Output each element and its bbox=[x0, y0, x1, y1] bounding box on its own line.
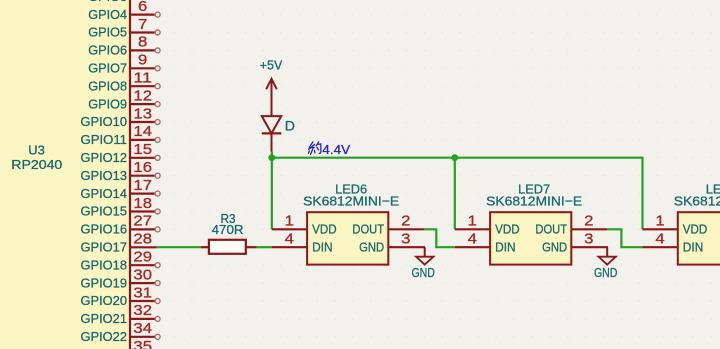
svg-text:34: 34 bbox=[133, 321, 152, 337]
IC U3 RP2040 body bbox=[0, 0, 130, 349]
LED LED8 body bbox=[678, 212, 720, 264]
svg-text:DIN: DIN bbox=[495, 239, 515, 254]
LED6 pin 4 DIN bbox=[272, 232, 333, 255]
svg-text:GPIO4: GPIO4 bbox=[88, 7, 127, 22]
wire drop to LED6 VDD bbox=[271, 158, 273, 230]
U3 pin 29 GPIO18 bbox=[81, 250, 161, 273]
LED6 pin 2 DOUT bbox=[352, 214, 424, 237]
svg-text:1: 1 bbox=[655, 214, 664, 230]
U3 pin 7 GPIO5 bbox=[88, 17, 160, 40]
svg-text:30: 30 bbox=[133, 267, 152, 283]
LED7 pin 2 DOUT bbox=[535, 214, 607, 237]
svg-text:31: 31 bbox=[133, 285, 152, 301]
svg-text:15: 15 bbox=[133, 142, 152, 158]
U3 pin 27 GPIO16 bbox=[81, 214, 161, 237]
svg-text:470R: 470R bbox=[212, 222, 244, 237]
wire GPIO17 to R3 bbox=[157, 246, 201, 248]
svg-text:SK6812MINI−E: SK6812MINI−E bbox=[674, 193, 720, 208]
LED7 pin 4 DIN bbox=[455, 232, 516, 255]
U3 pin 14 GPIO11 bbox=[81, 124, 161, 147]
U3 pin 28 GPIO17 bbox=[81, 232, 157, 255]
ground symbol GND (LED6) bbox=[411, 247, 435, 280]
svg-text:U3: U3 bbox=[28, 142, 45, 157]
svg-text:4.4V: 4.4V bbox=[322, 142, 350, 157]
svg-text:1: 1 bbox=[468, 214, 477, 230]
svg-text:GPIO11: GPIO11 bbox=[81, 132, 128, 147]
wire +5V bus bbox=[272, 152, 643, 230]
svg-text:GPIO9: GPIO9 bbox=[88, 96, 127, 111]
svg-text:1: 1 bbox=[285, 214, 294, 230]
svg-text:GND: GND bbox=[359, 239, 384, 254]
svg-text:GPIO10: GPIO10 bbox=[81, 114, 128, 129]
svg-text:SK6812MINI−E: SK6812MINI−E bbox=[303, 193, 399, 208]
U3 pin 15 GPIO12 bbox=[81, 142, 161, 165]
wire LED7 DOUT to LED8 DIN bbox=[607, 229, 642, 247]
LED8 pin 4 DIN bbox=[643, 232, 704, 255]
svg-text:GND: GND bbox=[542, 239, 567, 254]
net label "約4.4V" bbox=[309, 142, 321, 155]
svg-text:GPIO17: GPIO17 bbox=[81, 240, 128, 255]
svg-text:GPIO15: GPIO15 bbox=[81, 204, 128, 219]
svg-text:4: 4 bbox=[285, 232, 294, 248]
svg-text:GPIO19: GPIO19 bbox=[81, 275, 128, 290]
LED7 pin 1 VDD bbox=[455, 214, 520, 237]
svg-text:GPIO14: GPIO14 bbox=[81, 186, 128, 201]
U3 pin 32 GPIO21 bbox=[81, 303, 161, 326]
svg-text:RP2040: RP2040 bbox=[11, 157, 62, 172]
wire drop to LED7 VDD bbox=[454, 158, 456, 230]
svg-text:GPIO22: GPIO22 bbox=[81, 329, 128, 344]
svg-text:28: 28 bbox=[133, 232, 152, 248]
svg-text:DOUT: DOUT bbox=[535, 222, 567, 237]
svg-text:18: 18 bbox=[133, 196, 152, 212]
LED8 pin 1 VDD bbox=[643, 214, 708, 237]
svg-text:9: 9 bbox=[138, 53, 147, 69]
svg-text:2: 2 bbox=[584, 214, 593, 230]
U3 pin 13 GPIO10 bbox=[81, 106, 161, 129]
LED6 pin 1 VDD bbox=[272, 214, 337, 237]
svg-text:GPIO3: GPIO3 bbox=[88, 0, 127, 4]
U3 pin 16 GPIO13 bbox=[81, 160, 161, 183]
wire LED6 DOUT to LED7 DIN bbox=[424, 229, 455, 247]
svg-text:14: 14 bbox=[133, 124, 152, 140]
svg-text:GPIO8: GPIO8 bbox=[88, 78, 127, 93]
LED LED6 body bbox=[307, 212, 388, 264]
U3 pin 6 GPIO4 bbox=[88, 0, 160, 22]
LED7 pin 3 GND bbox=[542, 232, 608, 255]
U3 pin 11 GPIO8 bbox=[88, 71, 160, 94]
U3 pin 5 GPIO3 bbox=[88, 0, 160, 4]
svg-text:D: D bbox=[285, 119, 295, 135]
svg-text:+5V: +5V bbox=[260, 58, 283, 73]
LED LED7 body bbox=[490, 212, 571, 264]
svg-text:GND: GND bbox=[594, 265, 618, 280]
svg-text:GPIO7: GPIO7 bbox=[88, 61, 127, 76]
svg-text:GPIO13: GPIO13 bbox=[81, 168, 128, 183]
svg-text:GND: GND bbox=[411, 265, 435, 280]
ground symbol GND (LED7) bbox=[594, 247, 618, 280]
junction at LED7 bbox=[451, 154, 458, 161]
svg-text:32: 32 bbox=[133, 303, 152, 319]
junction at diode/LED6 bbox=[268, 154, 275, 161]
U3 pin 17 GPIO14 bbox=[81, 178, 161, 201]
U3 pin 34 GPIO22 bbox=[81, 321, 161, 344]
svg-text:17: 17 bbox=[133, 178, 152, 194]
U3 pin 9 GPIO7 bbox=[88, 53, 160, 76]
svg-text:DOUT: DOUT bbox=[352, 222, 384, 237]
svg-text:27: 27 bbox=[133, 214, 152, 230]
svg-text:VDD: VDD bbox=[495, 222, 519, 237]
svg-text:GPIO18: GPIO18 bbox=[81, 257, 128, 272]
svg-text:4: 4 bbox=[655, 232, 664, 248]
diode D bbox=[262, 116, 295, 151]
U3 pin 18 GPIO15 bbox=[81, 196, 161, 219]
svg-text:12: 12 bbox=[133, 88, 152, 104]
U3 pin 12 GPIO9 bbox=[88, 88, 160, 111]
svg-text:GPIO20: GPIO20 bbox=[81, 293, 128, 308]
U3 pin 8 GPIO6 bbox=[88, 35, 160, 58]
svg-text:SK6812MINI−E: SK6812MINI−E bbox=[486, 193, 582, 208]
svg-text:VDD: VDD bbox=[683, 222, 708, 237]
svg-text:8: 8 bbox=[138, 35, 147, 51]
svg-text:3: 3 bbox=[401, 232, 410, 248]
svg-text:13: 13 bbox=[133, 106, 152, 122]
wire R3 to LED6 DIN bbox=[257, 246, 272, 248]
svg-text:29: 29 bbox=[133, 250, 152, 266]
svg-text:GPIO16: GPIO16 bbox=[81, 222, 128, 237]
svg-text:16: 16 bbox=[133, 160, 152, 176]
svg-text:35: 35 bbox=[133, 339, 152, 349]
svg-text:4: 4 bbox=[468, 232, 477, 248]
power symbol +5V bbox=[260, 58, 283, 117]
LED6 pin 3 GND bbox=[359, 232, 425, 255]
U3 pin 31 GPIO20 bbox=[81, 285, 161, 308]
svg-text:11: 11 bbox=[133, 71, 152, 87]
svg-text:DIN: DIN bbox=[683, 239, 704, 254]
svg-text:3: 3 bbox=[584, 232, 593, 248]
svg-text:VDD: VDD bbox=[312, 222, 337, 237]
svg-text:GPIO5: GPIO5 bbox=[88, 25, 127, 40]
svg-text:GPIO12: GPIO12 bbox=[81, 150, 128, 165]
svg-text:DIN: DIN bbox=[312, 239, 333, 254]
svg-text:GPIO21: GPIO21 bbox=[81, 311, 128, 326]
U3 pin 35 GPIO23 bbox=[81, 339, 161, 349]
svg-text:2: 2 bbox=[401, 214, 410, 230]
svg-text:6: 6 bbox=[138, 0, 147, 15]
resistor R3 bbox=[201, 240, 257, 254]
U3 pin 30 GPIO19 bbox=[81, 267, 161, 290]
svg-text:GPIO6: GPIO6 bbox=[88, 43, 127, 58]
svg-text:7: 7 bbox=[138, 17, 147, 33]
